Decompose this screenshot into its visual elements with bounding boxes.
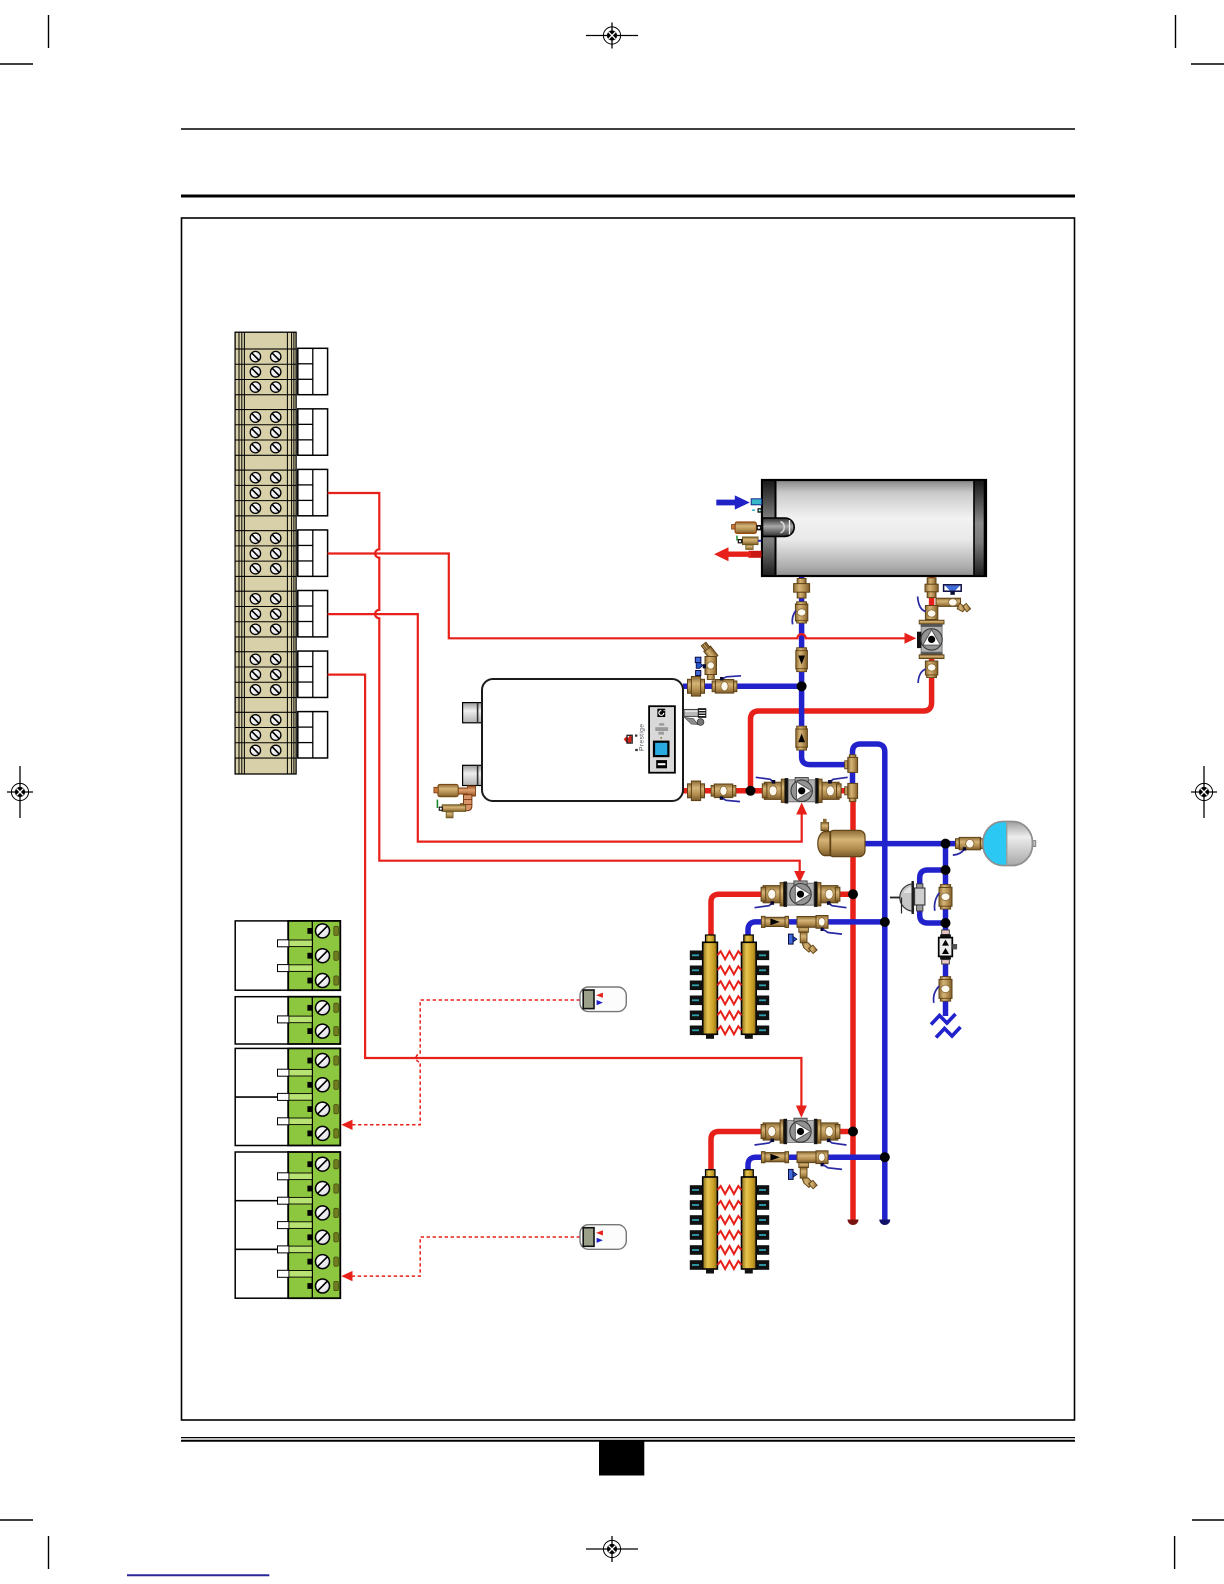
DHW red drop fittings	[925, 578, 938, 598]
fill main ball valve	[935, 885, 953, 911]
tank right ring	[974, 480, 985, 576]
terminal group 7	[235, 712, 296, 758]
terminal group 3	[235, 470, 296, 516]
closely spaced tee upper	[845, 755, 858, 773]
fill pressure reducing valve	[890, 881, 925, 914]
tank cold/return drop (blue)	[802, 576, 853, 765]
connector box 5	[298, 591, 328, 637]
terminal group 2	[235, 410, 296, 456]
boiler sensor well	[684, 709, 699, 716]
zone 2 manifold set	[690, 1170, 769, 1274]
boiler return ball valve	[712, 676, 741, 693]
zone 2 supply pipe (red)	[711, 1132, 853, 1173]
boiler flue stub bottom	[463, 765, 482, 785]
crop mark top-right vertical	[1175, 15, 1177, 48]
node zone1 return	[880, 917, 890, 927]
node expansion tee	[941, 839, 951, 849]
header thick rule	[181, 195, 1075, 198]
boiler flue stub top	[463, 703, 482, 723]
footer page number block	[599, 1441, 644, 1476]
crop mark top-left horizontal	[0, 63, 33, 65]
green terminal block 1	[288, 921, 340, 990]
crop mark bottom-right vertical	[1174, 1536, 1176, 1569]
header thin rule	[181, 128, 1075, 130]
zone 2 purge tee with drain	[789, 1151, 843, 1189]
tank T&P relief valve	[735, 522, 756, 533]
footer double rule	[181, 1437, 1075, 1439]
cold supply break squiggle	[931, 1014, 956, 1025]
tank left cap	[762, 480, 776, 576]
node bypass top	[941, 865, 951, 875]
DHW tank loop pipe (red)	[751, 576, 932, 791]
crop mark bottom-left horizontal	[0, 1519, 33, 1521]
boiler return cross fitting	[688, 677, 705, 697]
wire box3 to zone1 circulator	[328, 493, 800, 872]
diagram border box	[182, 218, 1075, 1420]
crop mark bottom-left vertical	[48, 1536, 50, 1569]
fill line (blue)	[943, 844, 949, 1016]
registration mark left center	[7, 766, 33, 818]
svg-text:Prestige: Prestige	[639, 724, 646, 751]
tank pump bottom isolation valve	[918, 661, 938, 683]
crop mark top-right horizontal	[1191, 63, 1224, 65]
boiler brand mark	[639, 724, 646, 751]
expansion tank pipe (blue)	[860, 841, 985, 847]
connector box 7	[298, 712, 328, 758]
arrow to zone1 circulator	[794, 871, 805, 883]
red supply riser	[850, 791, 856, 1220]
hot water outlet arrow	[749, 551, 762, 558]
wire box5 to boiler circulator	[328, 614, 802, 842]
registration mark bottom center	[586, 1536, 638, 1562]
connector box 4	[298, 530, 328, 576]
green terminal block 3 white box	[235, 1048, 288, 1097]
wire box4 to DHW circulator	[328, 554, 905, 639]
cold water inlet arrow	[716, 495, 750, 509]
thermostat 1	[580, 987, 626, 1012]
boiler supply pipe (red)	[683, 788, 853, 794]
expansion tank isolation valve	[953, 837, 984, 855]
green terminal block 3	[288, 1048, 340, 1145]
fill bypass loop (blue)	[920, 870, 946, 923]
node bypass bottom	[941, 918, 951, 928]
tank pump top isolation valve	[918, 597, 938, 620]
boiler cabinet	[482, 679, 683, 801]
zone 1 return pipe (blue)	[748, 922, 885, 942]
boiler supply ball valve	[711, 784, 740, 802]
boiler return pipe (blue)	[683, 684, 802, 690]
blue riser end cap	[879, 1220, 890, 1226]
closely spaced tee segment (blue)	[850, 765, 856, 791]
connector box 1	[298, 348, 328, 394]
registration mark top center	[586, 23, 638, 49]
red riser end cap	[848, 1220, 859, 1226]
green terminal block 4 white box	[235, 1152, 288, 1201]
expansion tank	[983, 822, 1036, 866]
connector box 6	[298, 651, 328, 697]
zone 1 supply pipe (red)	[711, 894, 853, 942]
crop mark bottom-right horizontal	[1192, 1519, 1224, 1521]
node zone2 return	[880, 1152, 890, 1162]
terminal group 4	[235, 531, 296, 577]
zone 1 purge tee with drain	[789, 916, 843, 954]
node zone1 supply	[848, 889, 858, 899]
boiler return purge valve assembly	[695, 641, 718, 679]
boiler return check valve (up)	[796, 726, 808, 750]
green terminal block 2 white box	[235, 997, 288, 1044]
strip rail lines	[239, 332, 294, 774]
wire box6 to zone2 circulator	[328, 675, 802, 1106]
DHW circulator pump (vertical)	[917, 620, 944, 658]
terminal group 5	[235, 591, 296, 637]
blue drop tee fitting	[794, 579, 810, 599]
backflow preventer	[939, 930, 957, 964]
boiler control panel	[649, 706, 675, 773]
arrow to green block 4	[341, 1271, 352, 1281]
terminal strip body	[235, 332, 296, 774]
arrow to zone2 circulator	[796, 1106, 807, 1118]
node zone2 supply	[848, 1127, 858, 1137]
arrow to DHW circulator	[905, 633, 917, 644]
registration mark right center	[1191, 766, 1217, 818]
boiler supply cross fitting	[688, 781, 705, 801]
tank line ball valve	[792, 602, 808, 625]
dashed wire thermostat 2	[352, 1237, 580, 1276]
green terminal block 4	[288, 1152, 340, 1298]
node boiler return	[797, 681, 807, 691]
zone 1 return check valve	[761, 916, 788, 927]
tank body	[762, 480, 986, 576]
boiler relief valve assembly	[434, 784, 476, 817]
thermostat 2	[580, 1225, 626, 1250]
tank line check valve (down)	[796, 648, 808, 672]
zone 2 return pipe (blue)	[748, 1157, 885, 1177]
air separator	[818, 819, 865, 857]
junction dots	[746, 681, 951, 1162]
return riser bridge and drop (blue)	[853, 744, 885, 1220]
fill bottom ball valve	[934, 977, 952, 1003]
connector box 3	[298, 469, 328, 515]
green terminal block 1 white box	[235, 921, 288, 990]
tank drain valve	[743, 537, 759, 545]
boiler circulator P1	[756, 777, 848, 803]
terminal group 6	[235, 652, 296, 698]
green terminal block 2	[288, 997, 340, 1044]
tank boiler-drain valve	[936, 585, 971, 612]
zone 2 circulator P3	[755, 1118, 847, 1145]
closely spaced tee lower	[845, 783, 858, 801]
connector box 2	[298, 409, 328, 455]
arrow to green block 3	[341, 1120, 352, 1130]
dashed wire thermostat 1	[352, 1000, 580, 1125]
tank coil port	[763, 518, 795, 536]
zone 1 manifold set	[690, 935, 769, 1039]
zone 2 return check valve	[761, 1152, 788, 1163]
arrow to boiler circulator	[796, 803, 807, 815]
zone 1 circulator P2	[755, 881, 847, 908]
node boiler supply/DHW	[746, 786, 756, 796]
crop mark top-left vertical	[48, 15, 50, 48]
terminal group 1	[235, 349, 296, 395]
footer navy rule	[127, 1574, 269, 1576]
